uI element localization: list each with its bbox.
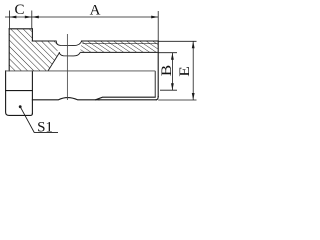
svg-text:S1: S1 (37, 120, 53, 136)
svg-text:C: C (14, 2, 24, 18)
svg-text:B: B (159, 65, 175, 77)
svg-text:E: E (177, 66, 193, 77)
svg-text:A: A (90, 3, 101, 19)
